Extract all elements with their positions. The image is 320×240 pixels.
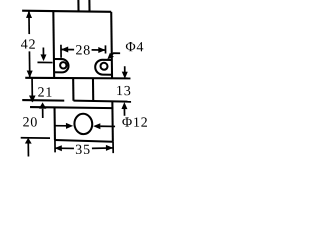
svg-text:Φ12: Φ12 xyxy=(122,115,149,130)
svg-text:35: 35 xyxy=(75,143,91,158)
svg-text:28: 28 xyxy=(75,43,91,58)
svg-text:Φ4: Φ4 xyxy=(125,40,144,55)
svg-text:21: 21 xyxy=(37,85,53,100)
svg-text:20: 20 xyxy=(22,115,38,130)
svg-text:13: 13 xyxy=(116,84,132,99)
svg-text:42: 42 xyxy=(21,38,37,53)
